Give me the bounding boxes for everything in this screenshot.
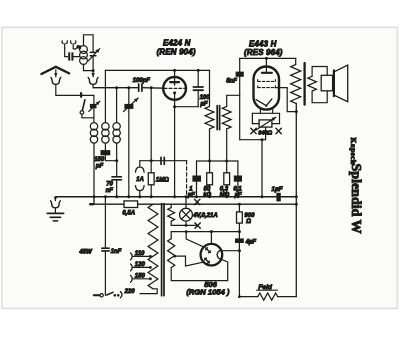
capacitor 4uF blob — [235, 238, 244, 243]
E443H grid2 dashes — [258, 86, 276, 88]
mains switch stub — [94, 294, 100, 296]
wire J1 to C-ant — [65, 48, 68, 56]
trimmer C3 arrow — [124, 98, 139, 112]
speaker magnet bar — [333, 70, 335, 96]
trimmer C3 blob — [124, 104, 133, 109]
svg-text:1nF: 1nF — [111, 249, 122, 255]
bus node x151.2 — [150, 195, 153, 198]
resistor 900 box — [237, 212, 243, 223]
bus node x296.3 — [295, 195, 298, 198]
lamp bottom wire — [171, 224, 196, 226]
switch S1 contact stud — [80, 93, 82, 97]
svg-text:MΩ: MΩ — [220, 193, 230, 199]
mains line wire — [90, 203, 124, 205]
svg-text:1µF: 1µF — [271, 186, 283, 193]
wire L3 bottom — [104, 143, 106, 150]
grid2 takeoff wire — [275, 88, 296, 112]
wire node to trimmer branch — [81, 95, 94, 103]
bus node x196.5 — [195, 195, 198, 198]
bus node x174.6 — [173, 195, 176, 198]
capacitor 1uF bottom lead — [196, 182, 198, 197]
wire 100pF to grid — [143, 87, 164, 90]
E443H plate bar — [262, 72, 272, 74]
svg-text:E443 H: E443 H — [249, 39, 277, 48]
bus node x139.8 — [138, 195, 141, 198]
pot bottom lead — [265, 127, 267, 140]
svg-text:(RGN 1054 ): (RGN 1054 ) — [186, 288, 230, 297]
svg-text:100pF: 100pF — [133, 78, 151, 84]
plate supply wire output — [240, 57, 296, 59]
transformer primary winding — [148, 204, 158, 289]
bus node x262.0 — [261, 195, 264, 198]
mains plug dots — [114, 294, 117, 297]
node link — [261, 138, 264, 141]
node antenna tank — [92, 69, 95, 72]
fuse 1A bottom lead — [139, 191, 141, 197]
dial lamp bottom lead — [185, 221, 187, 225]
node 0.3M top — [225, 160, 228, 163]
X mark left — [251, 128, 256, 133]
wire 70nF to bus — [116, 180, 118, 197]
wire 1nF to switch — [104, 251, 106, 295]
506 filament bar 1 — [206, 248, 211, 253]
capacitor 0.1uF bottom — [237, 182, 239, 197]
wire 150pF to node — [105, 155, 116, 160]
pot cage sides — [251, 113, 253, 123]
node L4 top — [115, 86, 118, 89]
506 output lead — [222, 250, 239, 252]
mains switch circle — [100, 294, 103, 297]
mains dropper wire — [104, 197, 106, 248]
output transformer core — [303, 63, 305, 105]
interstage secondary bottom lead — [226, 129, 228, 161]
capacitor 100pF plates — [138, 84, 140, 91]
plug arrow into socket — [92, 71, 94, 77]
node 50k top — [208, 160, 211, 163]
svg-text:0,5A: 0,5A — [122, 211, 135, 217]
node feld left — [238, 295, 241, 298]
output transformer primary lead — [295, 58, 297, 64]
resistor 0.3M lead — [226, 161, 228, 173]
dashed drop wire — [186, 161, 188, 197]
E424N plate lead — [174, 70, 176, 82]
wire cathode to 100uF bottom — [175, 106, 199, 108]
506 anode arc — [217, 250, 222, 259]
dial lamp top lead — [185, 197, 187, 209]
node avc 1M — [150, 159, 153, 162]
svg-text:(RES 964): (RES 964) — [244, 48, 283, 57]
svg-text:120: 120 — [135, 262, 146, 268]
E424N plate bar — [170, 81, 179, 83]
branch to filament pin1 — [186, 232, 203, 247]
trimmer C2 blob — [90, 104, 97, 108]
secondary loop bottom — [312, 91, 327, 103]
bus node x209.6 — [208, 195, 211, 198]
E443H plate lead — [265, 58, 267, 72]
interstage primary lead — [209, 70, 211, 106]
wire L2 bottom to bus — [93, 143, 95, 197]
resistor 1M lead bottom — [150, 185, 152, 197]
capacitor 1uF blob — [192, 176, 201, 182]
coil L2 (aerial) — [90, 123, 97, 143]
mains plug arc — [120, 292, 122, 298]
capacitor 5nF blob — [236, 72, 244, 77]
tank loop wire bottom — [84, 64, 94, 71]
plate supply wire E424N — [105, 69, 209, 71]
node grid bus 1M — [150, 86, 153, 89]
tap 150 — [131, 275, 133, 282]
tube E443H envelope — [254, 67, 280, 110]
svg-text:nF: nF — [106, 188, 114, 194]
wire bottom link row — [240, 139, 266, 141]
capacitor 1uF series blob — [276, 193, 280, 202]
X mark lamp bottom — [195, 223, 200, 228]
svg-text:110: 110 — [135, 251, 145, 257]
E424N grid dashes — [164, 87, 185, 89]
svg-text:0,3: 0,3 — [220, 186, 229, 192]
svg-text:Ω: Ω — [245, 219, 251, 225]
ground lead arrow — [54, 197, 56, 201]
506 anode lead — [210, 232, 212, 245]
svg-text:150: 150 — [94, 157, 105, 163]
filament legs — [259, 110, 261, 114]
bus node x94.0 — [93, 195, 96, 198]
X mark right — [276, 128, 281, 133]
fuse 1A bottom clip — [136, 186, 145, 191]
svg-text:pF: pF — [95, 164, 104, 170]
wire trimmer C3 to bus — [128, 109, 130, 197]
wire trimmer down — [93, 108, 95, 118]
wire switch to bottom — [81, 114, 83, 118]
wire C-ant to L-ant — [73, 56, 79, 58]
bus node x186.0 — [185, 195, 188, 198]
capacitor series plates — [160, 157, 162, 164]
capacitor 100uF bottom lead — [197, 90, 199, 107]
mains switch lever — [107, 292, 113, 295]
voice coil box — [321, 75, 332, 91]
capacitor 1nF plates — [102, 247, 109, 249]
resistor 0.3M box — [224, 173, 230, 185]
svg-text:45W: 45W — [78, 249, 93, 255]
wire L4 bottom to node — [116, 143, 118, 161]
potentiometer 940 box — [259, 120, 272, 127]
bus node x226.7 — [225, 195, 228, 198]
feld wire left — [239, 296, 257, 298]
capacitor antenna series (plates) — [68, 52, 70, 60]
coil L3 (reaction) — [102, 123, 109, 143]
socket arc — [88, 77, 98, 84]
output transformer secondary — [308, 76, 317, 91]
svg-text:(REN 904): (REN 904) — [157, 48, 196, 57]
wire L4 top to grid bus — [116, 88, 118, 123]
main bus wire — [55, 196, 276, 198]
pot side stubs — [252, 123, 259, 125]
rect heater top lead — [171, 232, 239, 239]
node screen junction — [295, 110, 298, 113]
iron core blob — [76, 45, 81, 49]
feld wire right — [278, 296, 297, 298]
main bus wire right — [281, 196, 297, 198]
rectifier heater winding — [168, 239, 175, 268]
svg-text:50: 50 — [204, 186, 211, 192]
resistor 1M box — [148, 173, 154, 185]
resistor 50k box — [207, 173, 213, 185]
node rect output — [238, 249, 241, 252]
506 filament bar 2 — [205, 258, 210, 263]
node plate lead — [173, 69, 176, 72]
variable capacitor C1 plates — [90, 51, 96, 53]
tap 110 — [131, 253, 133, 260]
wire C1 to node — [92, 56, 94, 71]
ground stem — [54, 208, 56, 213]
wire roof socket down — [56, 85, 81, 96]
interstage secondary top lead — [227, 95, 240, 106]
svg-text:5nF: 5nF — [226, 78, 237, 84]
E443H grid1 dashes — [258, 80, 276, 82]
capacitor 100uF top lead — [197, 70, 199, 86]
svg-text:900: 900 — [244, 213, 255, 219]
wire switch bottom joins — [82, 118, 94, 123]
interstage primary winding — [205, 106, 214, 128]
wire socket to grid bus — [92, 85, 94, 88]
bus node x128.8 — [127, 195, 130, 198]
capacitor 1uF lead — [196, 161, 198, 175]
rectifier 506 envelope — [201, 244, 223, 266]
ground bars — [47, 212, 63, 214]
resistor 50k bottom — [209, 185, 211, 197]
tank loop wire top — [84, 35, 94, 52]
wire node to 70nF — [116, 161, 118, 177]
transformer core — [161, 204, 163, 296]
svg-text:Kapsch: Kapsch — [349, 138, 358, 166]
bus node x105.4 — [104, 195, 107, 198]
svg-text:4µF: 4µF — [245, 239, 257, 245]
fuse 1A top clip — [136, 167, 145, 172]
svg-text:220: 220 — [124, 289, 136, 295]
dial lamp cross — [182, 210, 191, 219]
heater winding 4V — [168, 208, 175, 222]
centre tap wire — [175, 256, 203, 266]
bus node x237.9 — [236, 195, 239, 198]
node 100uF top — [197, 69, 200, 72]
5nF bottom lead long — [239, 77, 241, 140]
field coil resistor — [258, 293, 278, 300]
E443H filament — [256, 99, 272, 106]
right dropper wire — [238, 204, 240, 296]
capacitor 70nF plates — [112, 176, 121, 178]
potentiometer 940 arrow — [256, 117, 276, 130]
svg-text:1MΩ: 1MΩ — [156, 178, 169, 184]
tube E424N envelope — [163, 77, 186, 100]
capacitor 0.1uF lead — [237, 161, 239, 175]
ground socket arc — [51, 201, 61, 208]
node mains 900 — [238, 203, 241, 206]
heater 4V bottom lead — [170, 221, 172, 225]
wire grid network row — [197, 160, 238, 162]
wire link to bus — [261, 140, 263, 197]
antenna jack J2 — [71, 41, 76, 49]
roof socket arc — [51, 77, 61, 84]
svg-text:µF: µF — [199, 101, 207, 107]
svg-text:0,1: 0,1 — [233, 186, 242, 192]
wire L3 top to plate line — [104, 70, 106, 122]
fuse 1A top lead — [139, 161, 141, 167]
bus node x116.7 — [115, 195, 118, 198]
switch S1 lever — [82, 100, 85, 111]
interstage primary bottom lead — [209, 129, 211, 161]
svg-text:µF: µF — [187, 193, 195, 199]
svg-text:150: 150 — [135, 273, 146, 279]
resistor 50k lead — [209, 161, 211, 173]
switch S1 terminal circle — [80, 111, 84, 115]
trimmer C2 arrow — [89, 101, 100, 111]
pot cage top — [252, 112, 279, 114]
capacitor 100uF plates — [193, 86, 203, 88]
antenna coil L1 — [80, 46, 88, 65]
tap 120 — [131, 264, 133, 271]
resistor 1M lead top — [150, 88, 152, 173]
mains line wire right — [138, 203, 297, 205]
svg-text:100: 100 — [200, 95, 211, 101]
heater 4V top lead — [170, 204, 172, 207]
node plate top — [265, 57, 268, 60]
wire avc row — [140, 160, 187, 162]
capacitor 0.1uF blob — [234, 176, 242, 182]
X mark lamp top — [195, 199, 200, 204]
coil L4 (grid) — [113, 123, 120, 143]
trimmer C3 line from grid bus — [128, 88, 130, 104]
node 150pF/L4 — [115, 159, 118, 162]
fuse 0,5A box — [124, 201, 138, 208]
dial lamp circle — [180, 208, 193, 221]
svg-text:70: 70 — [106, 182, 113, 188]
secondary loop top — [312, 67, 327, 77]
svg-text:1A: 1A — [136, 177, 144, 183]
speaker cone — [335, 65, 348, 102]
variable capacitor C1 arrow — [88, 49, 99, 61]
interstage core — [216, 106, 218, 130]
right column wire — [295, 103, 297, 296]
mains stub — [93, 197, 95, 204]
node cathode wire — [173, 105, 176, 108]
grid bus wire — [93, 87, 138, 89]
svg-text:4V,0,21A: 4V,0,21A — [192, 213, 217, 219]
interstage secondary winding — [222, 106, 231, 128]
node trimmer top — [127, 86, 130, 89]
node mains right — [295, 203, 298, 206]
antenna jack J1 — [62, 41, 67, 49]
E424N cathode dot — [173, 91, 176, 94]
centre tap — [173, 255, 176, 258]
earth antenna symbol (roof) — [41, 67, 69, 74]
capacitor 150pF blob — [101, 150, 111, 155]
E424N cathode lead to bus — [174, 93, 176, 197]
svg-text:E424 N: E424 N — [163, 38, 191, 47]
svg-text:Splendid W: Splendid W — [348, 164, 363, 234]
5nF top lead — [239, 58, 241, 71]
output transformer primary — [291, 65, 301, 104]
rect heater bottom loop — [171, 259, 228, 280]
resistor 0.3M bottom — [226, 185, 228, 197]
node heater join — [238, 230, 241, 233]
roof lead arrow — [55, 70, 57, 77]
wire J2 to core tap — [73, 48, 77, 50]
